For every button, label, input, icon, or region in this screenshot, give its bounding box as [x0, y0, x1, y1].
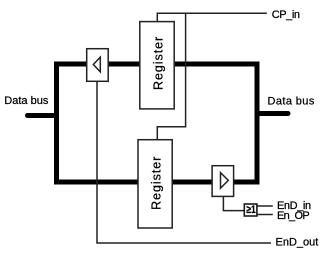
svg-text:Register: Register	[150, 156, 164, 210]
svg-text:Data bus: Data bus	[268, 95, 315, 107]
wire: thick data-bus rectangle loop	[57, 64, 258, 182]
wire: right Data bus stub	[257, 111, 288, 116]
wire: EnD_in input line	[257, 205, 273, 207]
wire: En_OP input line	[257, 214, 273, 216]
wire: CP_in clock net to Register 1 and Register 2	[157, 13, 266, 140]
svg-text:≥1: ≥1	[246, 204, 255, 216]
buffer U1 box (input buffer)	[87, 49, 109, 82]
register REG2 box	[138, 140, 172, 228]
wire: enable net from gate U3 to buffer U2	[223, 196, 244, 210]
svg-text:CP_in: CP_in	[272, 9, 300, 21]
wire: left Data bus stub	[28, 113, 57, 118]
svg-text:Register: Register	[152, 36, 166, 90]
svg-text:En_OP: En_OP	[277, 210, 309, 222]
buffer U2 box (output buffer)	[212, 166, 234, 197]
buffer U2 triangle (points right)	[221, 173, 229, 189]
wire: EnD_out net from buffer U1	[97, 81, 271, 243]
svg-text:EnD_out: EnD_out	[276, 236, 319, 248]
gate U3 box (OR, >1)	[244, 204, 257, 216]
register REG1 box	[140, 22, 174, 109]
svg-text:Data bus: Data bus	[4, 95, 49, 107]
buffer U1 triangle (points left)	[93, 57, 100, 72]
